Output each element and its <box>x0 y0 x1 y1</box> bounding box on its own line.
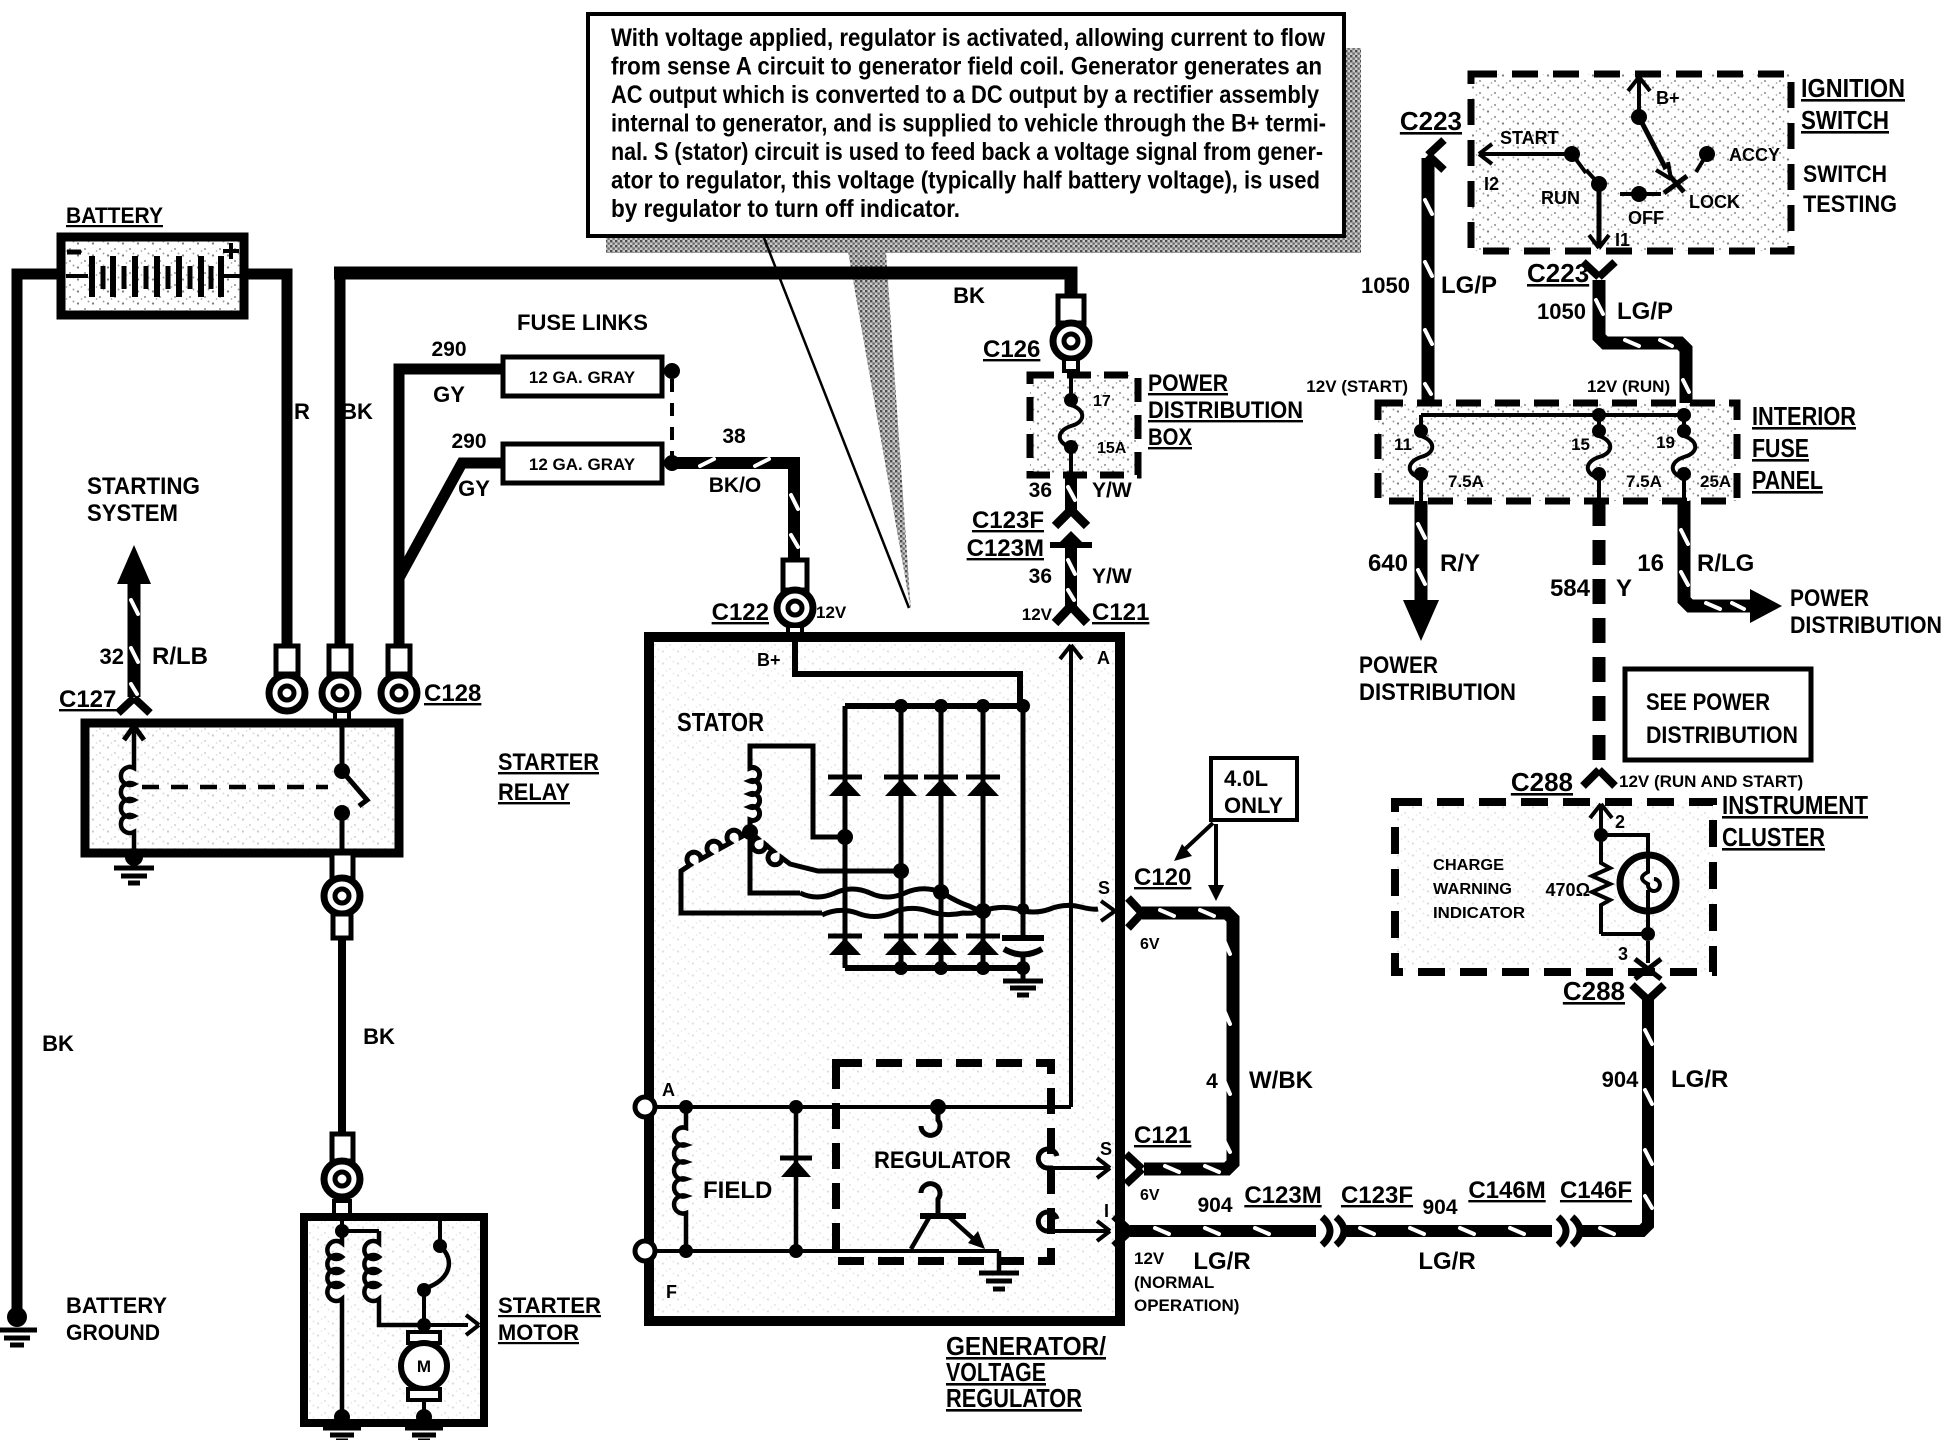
svg-text:C120: C120 <box>1134 864 1191 891</box>
svg-text:S: S <box>1098 878 1110 898</box>
svg-text:With voltage applied, regulato: With voltage applied, regulator is activ… <box>611 24 1325 52</box>
svg-text:RUN: RUN <box>1541 188 1580 208</box>
svg-text:C122: C122 <box>712 599 769 626</box>
svg-text:470Ω: 470Ω <box>1546 880 1590 900</box>
svg-text:BK/O: BK/O <box>709 474 762 497</box>
svg-text:12 GA. GRAY: 12 GA. GRAY <box>529 368 636 387</box>
svg-text:BK: BK <box>42 1031 74 1056</box>
svg-text:BOX: BOX <box>1148 424 1192 451</box>
svg-text:Y/W: Y/W <box>1092 479 1132 502</box>
svg-text:904: 904 <box>1602 1067 1639 1092</box>
svg-text:R/LB: R/LB <box>152 643 208 670</box>
svg-text:CLUSTER: CLUSTER <box>1722 822 1825 852</box>
svg-text:C123F: C123F <box>972 507 1044 534</box>
svg-text:GY: GY <box>458 476 490 501</box>
svg-text:F: F <box>666 1282 677 1302</box>
svg-text:OPERATION): OPERATION) <box>1134 1296 1239 1315</box>
svg-text:–: – <box>70 238 82 263</box>
svg-text:6V: 6V <box>1140 1187 1160 1204</box>
svg-text:MOTOR: MOTOR <box>498 1320 579 1345</box>
svg-text:38: 38 <box>722 425 746 448</box>
svg-text:Y/W: Y/W <box>1092 565 1132 588</box>
svg-text:11: 11 <box>1394 435 1412 454</box>
svg-text:POWER: POWER <box>1359 652 1438 679</box>
svg-text:C121: C121 <box>1134 1122 1191 1149</box>
svg-text:R: R <box>294 399 310 424</box>
svg-text:B+: B+ <box>1656 88 1680 108</box>
svg-text:A: A <box>1097 648 1110 668</box>
svg-text:Y: Y <box>1616 575 1632 602</box>
svg-text:FUSE: FUSE <box>1752 433 1809 463</box>
svg-text:LG/R: LG/R <box>1418 1248 1475 1275</box>
svg-text:I2: I2 <box>1484 174 1499 194</box>
svg-text:CHARGE: CHARGE <box>1433 857 1504 874</box>
svg-text:B+: B+ <box>757 650 781 670</box>
svg-text:C223: C223 <box>1527 258 1589 288</box>
svg-text:25A: 25A <box>1700 472 1731 491</box>
svg-text:GROUND: GROUND <box>66 1320 160 1345</box>
svg-text:640: 640 <box>1368 550 1408 577</box>
svg-text:12V: 12V <box>1022 605 1053 624</box>
svg-text:12V (START): 12V (START) <box>1306 377 1408 396</box>
svg-text:904: 904 <box>1197 1194 1232 1217</box>
svg-text:DISTRIBUTION: DISTRIBUTION <box>1790 612 1942 639</box>
svg-text:12V: 12V <box>816 603 847 622</box>
svg-text:C121: C121 <box>1092 599 1149 626</box>
svg-text:ONLY: ONLY <box>1224 793 1283 818</box>
svg-text:S: S <box>1100 1139 1112 1159</box>
svg-text:7.5A: 7.5A <box>1448 472 1484 491</box>
svg-text:32: 32 <box>100 644 124 669</box>
svg-text:7.5A: 7.5A <box>1626 472 1662 491</box>
svg-text:16: 16 <box>1637 550 1664 577</box>
svg-text:SWITCH: SWITCH <box>1803 161 1887 188</box>
svg-text:BATTERY: BATTERY <box>66 1293 167 1318</box>
svg-text:IGNITION: IGNITION <box>1801 73 1905 103</box>
svg-text:15A: 15A <box>1097 440 1127 457</box>
svg-text:LG/R: LG/R <box>1671 1066 1728 1093</box>
svg-text:C127: C127 <box>59 686 116 713</box>
svg-text:STARTING: STARTING <box>87 473 200 500</box>
svg-text:36: 36 <box>1029 565 1052 588</box>
svg-text:FUSE LINKS: FUSE LINKS <box>517 310 648 335</box>
svg-text:I1: I1 <box>1615 230 1630 250</box>
svg-text:FIELD: FIELD <box>703 1177 772 1204</box>
svg-text:R/LG: R/LG <box>1697 550 1754 577</box>
svg-text:from sense A circuit to genera: from sense A circuit to generator field … <box>611 53 1322 81</box>
svg-text:BK: BK <box>341 399 373 424</box>
svg-text:ACCY: ACCY <box>1729 145 1780 165</box>
svg-text:2: 2 <box>1615 812 1625 832</box>
svg-text:DISTRIBUTION: DISTRIBUTION <box>1359 679 1516 706</box>
svg-text:LG/P: LG/P <box>1617 298 1673 325</box>
svg-text:DISTRIBUTION: DISTRIBUTION <box>1148 397 1303 424</box>
svg-text:12V: 12V <box>1134 1249 1165 1268</box>
svg-text:INTERIOR: INTERIOR <box>1752 401 1856 431</box>
svg-text:REGULATOR: REGULATOR <box>946 1383 1082 1413</box>
svg-text:584: 584 <box>1550 575 1591 602</box>
svg-text:C123F: C123F <box>1341 1182 1413 1209</box>
svg-text:(NORMAL: (NORMAL <box>1134 1273 1214 1292</box>
svg-text:OFF: OFF <box>1628 208 1664 228</box>
svg-text:SWITCH: SWITCH <box>1801 105 1889 135</box>
svg-text:36: 36 <box>1029 479 1052 502</box>
svg-text:I: I <box>1104 1201 1109 1221</box>
svg-text:LOCK: LOCK <box>1689 192 1740 212</box>
svg-text:LG/P: LG/P <box>1441 272 1497 299</box>
svg-text:1050: 1050 <box>1361 273 1410 298</box>
svg-text:LG/R: LG/R <box>1193 1248 1250 1275</box>
svg-text:by regulator to turn off indic: by regulator to turn off indicator. <box>611 195 960 223</box>
svg-text:4.0L: 4.0L <box>1224 766 1268 791</box>
svg-text:904: 904 <box>1422 1196 1457 1219</box>
svg-text:INDICATOR: INDICATOR <box>1433 905 1525 922</box>
svg-text:C288: C288 <box>1563 976 1625 1006</box>
svg-text:STARTER: STARTER <box>498 749 599 776</box>
svg-text:M: M <box>417 1357 431 1376</box>
svg-text:internal to generator, and is: internal to generator, and is supplied t… <box>611 110 1326 138</box>
svg-text:BK: BK <box>363 1024 395 1049</box>
svg-text:R/Y: R/Y <box>1440 550 1480 577</box>
svg-text:PANEL: PANEL <box>1752 465 1823 495</box>
svg-text:1050: 1050 <box>1537 299 1586 324</box>
svg-text:12 GA. GRAY: 12 GA. GRAY <box>529 455 636 474</box>
svg-text:A: A <box>662 1080 675 1100</box>
svg-text:W/BK: W/BK <box>1249 1067 1314 1094</box>
svg-text:C123M: C123M <box>967 535 1044 562</box>
svg-text:4: 4 <box>1206 1070 1218 1093</box>
svg-text:C223: C223 <box>1400 106 1462 136</box>
svg-text:19: 19 <box>1656 433 1675 452</box>
svg-text:GY: GY <box>433 382 465 407</box>
svg-text:REGULATOR: REGULATOR <box>874 1147 1011 1174</box>
svg-text:6V: 6V <box>1140 936 1160 953</box>
svg-text:C146M: C146M <box>1468 1177 1545 1204</box>
svg-text:290: 290 <box>451 430 486 453</box>
svg-text:WARNING: WARNING <box>1433 881 1512 898</box>
svg-text:RELAY: RELAY <box>498 779 570 806</box>
svg-text:17: 17 <box>1093 393 1111 410</box>
svg-text:BATTERY: BATTERY <box>66 203 163 228</box>
svg-text:12V (RUN): 12V (RUN) <box>1587 377 1670 396</box>
svg-text:C126: C126 <box>983 336 1040 363</box>
svg-text:15: 15 <box>1571 435 1590 454</box>
svg-text:nal. S (stator) circuit is use: nal. S (stator) circuit is used to feed … <box>611 138 1323 166</box>
svg-text:12V (RUN AND START): 12V (RUN AND START) <box>1619 772 1803 791</box>
svg-text:3: 3 <box>1618 944 1628 964</box>
svg-text:INSTRUMENT: INSTRUMENT <box>1722 790 1868 820</box>
svg-text:C123M: C123M <box>1244 1182 1321 1209</box>
svg-text:C146F: C146F <box>1560 1177 1632 1204</box>
svg-text:TESTING: TESTING <box>1803 191 1897 218</box>
svg-text:ator to regulator, this voltag: ator to regulator, this voltage (typical… <box>611 167 1320 195</box>
svg-text:POWER: POWER <box>1790 585 1869 612</box>
svg-text:START: START <box>1500 128 1559 148</box>
svg-text:POWER: POWER <box>1148 370 1228 397</box>
svg-text:DISTRIBUTION: DISTRIBUTION <box>1646 722 1798 749</box>
svg-text:SEE POWER: SEE POWER <box>1646 689 1770 716</box>
svg-text:STATOR: STATOR <box>677 707 764 737</box>
svg-text:SYSTEM: SYSTEM <box>87 500 178 527</box>
svg-text:AC output which is converted t: AC output which is converted to a DC out… <box>611 81 1319 109</box>
svg-text:BK: BK <box>953 283 985 308</box>
svg-text:STARTER: STARTER <box>498 1293 601 1318</box>
svg-text:C128: C128 <box>424 680 481 707</box>
svg-text:290: 290 <box>431 338 466 361</box>
svg-text:C288: C288 <box>1511 767 1573 797</box>
